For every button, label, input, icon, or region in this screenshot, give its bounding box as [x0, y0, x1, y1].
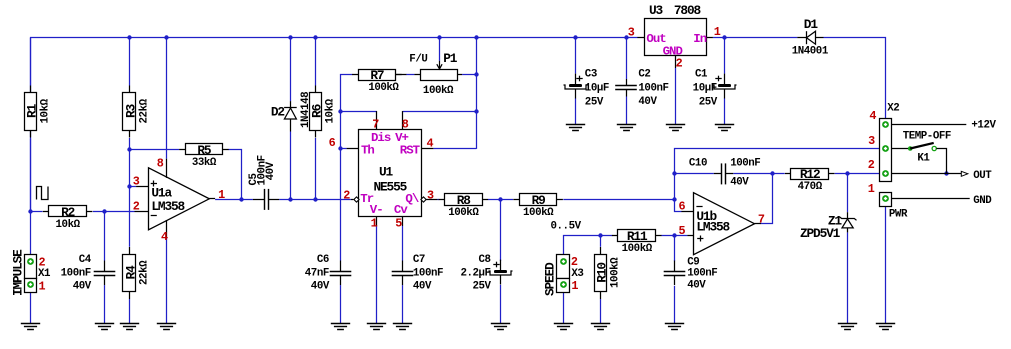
wire Z1 to ground [847, 232, 849, 323]
wire node to Th [340, 148, 347, 150]
horizontal resistor leads [43, 211, 49, 213]
svg-text:1: 1 [714, 25, 721, 39]
svg-text:C2: C2 [638, 69, 650, 81]
ground [157, 324, 176, 330]
ground [876, 324, 895, 330]
junction R10/R11 [598, 233, 602, 237]
junction R2/C4 [102, 209, 106, 213]
capacitor C6 plates [330, 272, 352, 276]
svg-text:Dis: Dis [371, 131, 391, 145]
capacitor C1 (electrolytic) [718, 84, 731, 87]
junction D2/Tr net [288, 197, 292, 201]
wire node to C4 [104, 211, 106, 260]
svg-text:5: 5 [679, 224, 686, 238]
wire C2 to ground [626, 97, 628, 125]
svg-text:R4: R4 [123, 265, 138, 280]
wire rail to R6 [315, 38, 317, 86]
wire R3 to divider node [129, 138, 131, 149]
svg-text:D2: D2 [271, 104, 285, 119]
wire X2 pin4 to +12V label [891, 124, 966, 126]
wire C8 to ground [500, 285, 502, 324]
svg-text:4: 4 [427, 137, 434, 151]
wire node to Z1 [847, 174, 849, 212]
svg-text:2: 2 [571, 255, 578, 269]
svg-text:PWR: PWR [889, 209, 908, 221]
connector X1 IMPULSE [25, 255, 37, 279]
diode D1 1N4001 [797, 31, 823, 44]
wire node to Dis pin7 [340, 111, 377, 113]
resistor R3 [123, 93, 136, 131]
wire C5 to Tr node [279, 199, 351, 201]
wire R12 to X2 pin2 [835, 173, 880, 175]
junction rail/V+ drop [474, 35, 478, 39]
capacitor C8 (electrolytic) [494, 270, 507, 273]
ground [554, 324, 573, 330]
svg-text:C3: C3 [585, 69, 597, 81]
svg-text:2: 2 [133, 199, 140, 213]
svg-text:R10: R10 [594, 263, 609, 283]
wire C4 to ground [104, 285, 106, 323]
svg-text:1: 1 [868, 182, 875, 196]
svg-text:0..5V: 0..5V [551, 220, 582, 232]
op-amp U1a [149, 168, 210, 230]
svg-text:C7: C7 [413, 254, 425, 266]
svg-text:In: In [693, 32, 706, 46]
svg-text:2: 2 [343, 188, 350, 202]
wire R1 to X1 [30, 138, 32, 254]
svg-text:OUT: OUT [973, 170, 992, 182]
switch K1 TEMP-OFF [891, 148, 908, 150]
op-amp U1b [694, 193, 755, 255]
wire R7 left to timing node column [341, 75, 353, 261]
junction pin8/RST [474, 109, 478, 113]
junction R6/Tr net [313, 197, 317, 201]
svg-text:1: 1 [39, 279, 46, 293]
wire node to R5 [129, 149, 179, 151]
resistor R5 [186, 144, 223, 155]
wire D1 to X2 pin4 [824, 38, 886, 125]
wire U1a pin4 to ground [166, 237, 168, 323]
IC U1 NE555 [359, 130, 422, 217]
svg-text:RST: RST [400, 144, 421, 158]
wire C3 to ground [575, 98, 577, 124]
svg-text:U3: U3 [649, 3, 664, 18]
svg-text:R5: R5 [197, 143, 212, 158]
wire rail to D2 [290, 38, 292, 101]
svg-text:Q\: Q\ [405, 192, 418, 206]
wire U1a out to C5 [215, 199, 253, 201]
wire U3 In to D1 [713, 37, 797, 39]
svg-text:40V: 40V [638, 96, 657, 108]
svg-text:X2: X2 [887, 102, 899, 114]
junction U1a out/C5 [239, 197, 243, 201]
svg-text:1: 1 [218, 188, 225, 202]
svg-text:6: 6 [329, 136, 336, 150]
wire node to R10 [600, 235, 602, 246]
svg-text:R11: R11 [627, 229, 648, 244]
svg-text:100nF: 100nF [687, 268, 717, 280]
svg-text:40V: 40V [73, 281, 92, 293]
svg-text:U1: U1 [379, 165, 394, 180]
svg-text:2: 2 [868, 158, 875, 172]
diode D2 1N4148 [284, 101, 297, 131]
svg-text:40V: 40V [687, 280, 706, 292]
svg-text:5: 5 [395, 216, 402, 230]
pad X2-4 [882, 121, 889, 128]
svg-text:4: 4 [161, 230, 168, 244]
wire Q to R8 [438, 199, 440, 201]
junction rail/R3 [127, 35, 131, 39]
junction rail/C1 [722, 35, 726, 39]
svg-text:40V: 40V [730, 177, 749, 189]
svg-text:R2: R2 [61, 205, 75, 220]
inverted pin 3 Q [421, 197, 426, 202]
ground [393, 324, 412, 330]
svg-text:V-: V- [370, 203, 383, 217]
svg-text:C1: C1 [695, 69, 708, 81]
svg-text:GND: GND [973, 195, 992, 207]
ground [591, 324, 610, 330]
wire rail to C3 [575, 38, 577, 74]
wire C9 to ground [674, 286, 676, 324]
wire X2 pin3 to U1b pin6 [675, 149, 880, 212]
wire R6 to Tr node [315, 138, 317, 199]
wire rail to P1 wiper [439, 38, 441, 61]
svg-text:R1: R1 [24, 103, 39, 118]
svg-text:33kΩ: 33kΩ [192, 157, 217, 169]
resistor R12 [791, 169, 829, 180]
wire R8 to R9 [488, 199, 513, 201]
svg-text:+12V: +12V [971, 119, 996, 131]
svg-text:22kΩ: 22kΩ [139, 260, 151, 285]
pad X1-1 [27, 281, 34, 288]
svg-text:25V: 25V [473, 281, 492, 293]
wire rail to R1 [30, 38, 32, 86]
svg-text:40V: 40V [311, 281, 330, 293]
svg-text:10µF: 10µF [693, 82, 717, 94]
junction C10 node [672, 171, 676, 175]
wire rail to R3 [129, 38, 131, 86]
junction P1/V+ [474, 72, 478, 76]
wire divider node down to R4 [129, 149, 131, 247]
capacitor C2 [615, 86, 637, 90]
ground [715, 125, 734, 131]
wire R2 to U1a pin2 [93, 211, 135, 213]
wire R9 to U1b node [563, 199, 674, 201]
svg-text:25V: 25V [585, 96, 604, 108]
svg-text:10kΩ: 10kΩ [56, 219, 81, 231]
svg-text:C10: C10 [689, 158, 707, 170]
svg-text:1: 1 [371, 216, 378, 230]
svg-text:10kΩ: 10kΩ [40, 98, 52, 123]
junction rail/U1a pin8 [164, 35, 168, 39]
svg-text:8: 8 [402, 118, 409, 132]
wire rail to C2 [626, 38, 628, 79]
junction R3/R5 divider [127, 147, 131, 151]
svg-text:C8: C8 [479, 254, 491, 266]
svg-text:X1: X1 [38, 268, 51, 280]
resistor R11 [618, 230, 656, 242]
svg-text:TEMP-OFF: TEMP-OFF [903, 130, 951, 142]
junction rail/D2 [288, 35, 292, 39]
svg-text:3: 3 [427, 188, 434, 202]
capacitor C7 plates [392, 272, 414, 276]
svg-text:100kΩ: 100kΩ [448, 207, 479, 219]
svg-text:100nF: 100nF [413, 267, 443, 279]
junction input node [28, 209, 32, 213]
resistor R2 [49, 206, 87, 217]
wire X3 pin1 to ground [563, 292, 565, 323]
wire 555 pin5 to C7 [402, 226, 404, 261]
ground [617, 125, 636, 131]
wire R4 to ground [129, 299, 131, 323]
junction K1/OUT [944, 171, 948, 175]
wire D2 to Tr node [290, 132, 292, 200]
svg-text:40V: 40V [413, 281, 432, 293]
ground [120, 324, 139, 330]
junction rail/R6 [313, 35, 317, 39]
wire input node to R2 [31, 211, 43, 213]
svg-text:R9: R9 [532, 193, 546, 208]
svg-text:100kΩ: 100kΩ [622, 243, 653, 255]
svg-text:1N4148: 1N4148 [300, 92, 312, 128]
resistor R7 [359, 70, 396, 81]
svg-text:2: 2 [676, 57, 683, 71]
svg-text:SPEED: SPEED [543, 262, 558, 296]
ground [666, 125, 685, 131]
wire node to C8 [500, 199, 502, 261]
svg-text:25V: 25V [699, 96, 718, 108]
connector X2 [880, 119, 892, 182]
svg-text:1: 1 [571, 279, 578, 293]
svg-text:7: 7 [372, 118, 379, 132]
svg-text:Th: Th [361, 144, 374, 158]
svg-text:100kΩ: 100kΩ [610, 257, 622, 288]
resistor R8 [445, 194, 483, 206]
ground [95, 324, 114, 330]
wire K1 to OUT line [936, 149, 946, 174]
resistor R10 [595, 255, 607, 292]
svg-text:40V: 40V [265, 161, 277, 180]
svg-text:R12: R12 [800, 167, 820, 182]
junction rail/C2 [624, 35, 628, 39]
resistor R9 [520, 194, 557, 206]
resistor R6 [310, 93, 322, 131]
svg-text:R7: R7 [370, 68, 384, 83]
wire P1 right to rail drop [462, 74, 476, 76]
svg-text:22kΩ: 22kΩ [139, 98, 151, 123]
svg-text:NE555: NE555 [374, 180, 408, 195]
pad X2-3 [882, 145, 889, 152]
junction pin3/R4 [127, 184, 131, 188]
pad X3-1 [560, 281, 567, 288]
ground [331, 324, 350, 330]
wire RST link [433, 148, 476, 150]
junction R9/U1b pin6 [672, 197, 676, 201]
svg-text:100kΩ: 100kΩ [368, 82, 399, 94]
IC U3 7808 regulator [645, 19, 707, 56]
svg-text:F/U: F/U [409, 54, 427, 66]
svg-text:100nF: 100nF [638, 82, 668, 94]
wire pin8 V+ link [403, 111, 477, 113]
wire U3 GND to ground [675, 68, 677, 124]
wire X3 pin2 to R10/R11 [564, 236, 613, 255]
pad X2-2 [882, 170, 889, 177]
capacitor C9 plates [664, 272, 686, 276]
svg-text:100kΩ: 100kΩ [523, 207, 554, 219]
wire rail to C1 [724, 38, 726, 74]
vertical resistor leads [30, 86, 32, 93]
svg-text:K1: K1 [917, 152, 930, 164]
junction rail/P1 wiper [437, 35, 441, 39]
junction rail/C3 [573, 35, 577, 39]
wire U1b out feedback [761, 174, 773, 224]
wire C6 to ground [340, 285, 342, 323]
capacitor C10 [722, 163, 726, 184]
svg-text:P1: P1 [443, 51, 458, 66]
wire C10 to R12 [733, 173, 785, 175]
svg-text:R8: R8 [457, 193, 471, 208]
svg-text:2.2µF: 2.2µF [460, 267, 490, 279]
svg-text:4: 4 [869, 109, 876, 123]
svg-text:100nF: 100nF [61, 267, 91, 279]
wire node to C10 [675, 173, 714, 175]
svg-text:47nF: 47nF [305, 267, 329, 279]
junction Th node [338, 146, 342, 150]
svg-text:LM358: LM358 [151, 199, 184, 214]
ground [491, 324, 510, 330]
junction U1b out/C10 [770, 171, 774, 175]
svg-text:C4: C4 [79, 254, 92, 266]
wire rail drop to pin8/RST [476, 38, 478, 149]
svg-text:6: 6 [679, 199, 686, 213]
svg-text:7: 7 [758, 212, 765, 226]
zener Z1 ZPD5V1 [839, 212, 856, 232]
wire R5 right to U1a output [229, 150, 242, 200]
ground [838, 324, 857, 330]
connector X3 SPEED [557, 255, 570, 279]
svg-text:10kΩ: 10kΩ [325, 98, 337, 123]
svg-text:7808: 7808 [674, 3, 701, 18]
svg-text:100nF: 100nF [730, 158, 760, 170]
svg-text:470Ω: 470Ω [798, 181, 823, 193]
junction R12/Z1 [845, 171, 849, 175]
pad X3-2 [560, 258, 567, 265]
wire R7 to P1 [406, 74, 414, 76]
svg-text:Cv: Cv [394, 203, 408, 217]
wire 555 pin1 to ground [376, 226, 378, 323]
ground [367, 324, 386, 330]
junction R11/C9 [672, 233, 676, 237]
wire divider to U1a pin3 [129, 186, 136, 188]
svg-text:3: 3 [868, 134, 875, 148]
svg-text:10µF: 10µF [585, 82, 609, 94]
svg-text:8: 8 [157, 156, 164, 170]
svg-text:3: 3 [628, 26, 635, 40]
wire main +12V rail from R1 to U3 [31, 38, 638, 212]
wire R10 to ground [600, 299, 602, 323]
wire C7 to ground [402, 285, 404, 323]
capacitor C4 plates [94, 272, 116, 276]
wire node to C9 [674, 235, 676, 261]
svg-text:LM358: LM358 [696, 220, 729, 235]
potentiometer P1 [421, 70, 458, 81]
svg-text:100kΩ: 100kΩ [423, 85, 454, 97]
ground [21, 324, 40, 330]
svg-text:IMPULSE: IMPULSE [10, 249, 25, 296]
capacitor C3 (electrolytic) [569, 84, 582, 87]
pulse waveform symbol [37, 187, 49, 200]
wire rail to U1a pin8 [166, 38, 168, 159]
wire X1 pin1 to ground [30, 292, 32, 323]
inverted pin 2 Tr [354, 197, 359, 202]
svg-text:1N4001: 1N4001 [792, 45, 829, 57]
wire R11 to U1b pin5 [661, 235, 687, 237]
svg-text:C9: C9 [687, 256, 699, 268]
resistor R1 [25, 93, 37, 131]
junction Dis node [338, 109, 342, 113]
svg-text:D1: D1 [804, 17, 819, 32]
capacitor C5 [265, 189, 269, 210]
wire X2 pin2 to OUT arrow [891, 173, 961, 175]
resistor R4 [123, 255, 136, 292]
junction R8/R9/C8 [498, 197, 502, 201]
svg-text:3: 3 [133, 174, 140, 188]
wire C1 to ground [724, 98, 726, 124]
wire X2 pin1 to GND label [891, 198, 970, 200]
pad X2-1 [882, 195, 889, 202]
svg-text:ZPD5V1: ZPD5V1 [800, 226, 841, 241]
svg-text:X3: X3 [571, 268, 583, 280]
ground [665, 324, 684, 330]
svg-text:C6: C6 [317, 254, 329, 266]
pad X1-2 [27, 258, 34, 265]
ground [566, 125, 585, 131]
svg-text:R3: R3 [123, 103, 138, 118]
wire PWR to ground [885, 207, 887, 324]
